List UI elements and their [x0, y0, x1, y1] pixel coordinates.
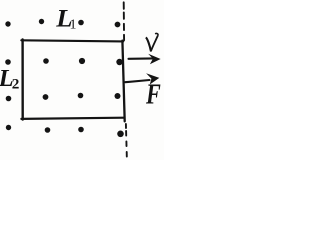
field dot row4 col1	[6, 125, 11, 130]
field dot row2 col2	[43, 58, 49, 64]
field dot row2 col1	[5, 59, 11, 65]
field boundary dashed line top segment	[123, 2, 125, 9]
force arrow head	[146, 73, 159, 84]
field dot row4 col3	[78, 127, 84, 133]
field dot row4 col4	[117, 131, 124, 138]
field dot row1 col1	[5, 21, 10, 26]
field dot row1 col2	[39, 19, 44, 24]
field dot row1 col3	[78, 20, 84, 26]
svg-text:1: 1	[70, 17, 77, 32]
field dot row3 col2	[43, 94, 49, 100]
velocity arrow shaft	[129, 57, 154, 59]
force arrow shaft	[125, 80, 149, 82]
field dot row2 col4	[116, 59, 122, 65]
field dot row3 col3	[78, 93, 84, 99]
label v	[146, 33, 158, 51]
field dot row2 col3	[79, 58, 85, 64]
field dot row3 col4	[115, 93, 121, 99]
field dot row4 col2	[45, 127, 51, 133]
svg-text:F: F	[145, 80, 161, 111]
loop right side	[122, 41, 124, 122]
field dot row3 col1	[6, 96, 12, 102]
loop left side	[21, 39, 24, 119]
field boundary dashed line bottom segment	[125, 124, 127, 128]
svg-text:2: 2	[12, 75, 20, 92]
field dot row1 col4	[115, 22, 121, 28]
loop top side	[21, 40, 123, 41]
velocity arrow head	[148, 54, 160, 65]
loop bottom side	[21, 118, 124, 119]
